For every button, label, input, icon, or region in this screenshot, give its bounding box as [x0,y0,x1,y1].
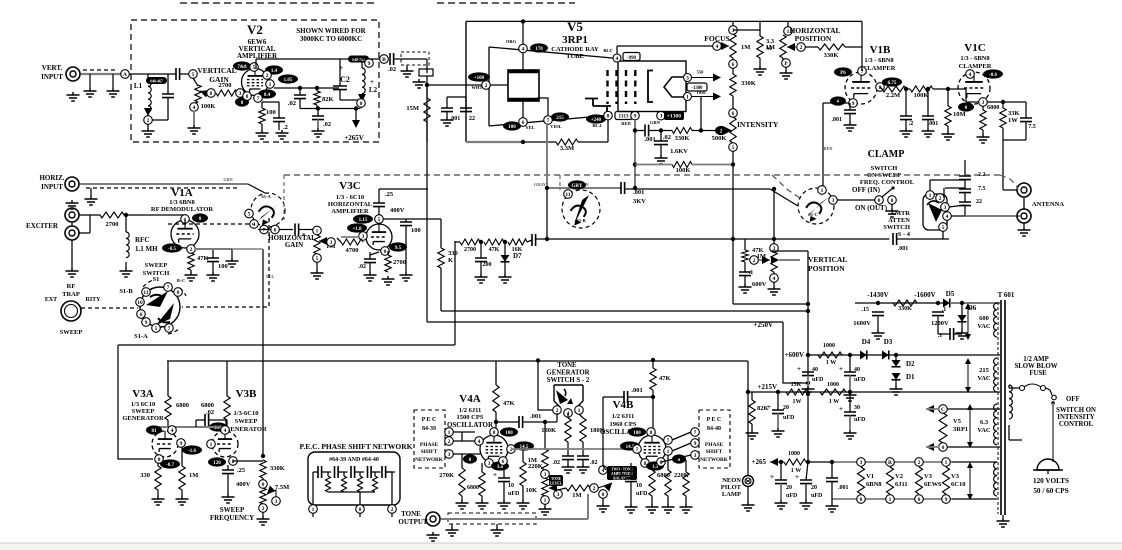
wire 10ufd b top [630,463,632,478]
sweep freq wiper [267,486,275,494]
svg-text:+265: +265 [752,458,767,466]
switch lever [1050,390,1052,395]
svg-text:2700: 2700 [464,247,476,253]
wire D7 gnd [504,262,506,274]
capacitor 200 [475,258,487,262]
svg-text:.2: .2 [909,121,914,127]
ground .2 V1B [900,128,913,137]
node 10 S1B [136,298,145,307]
svg-text:FREQ. CONTROL: FREQ. CONTROL [860,179,915,186]
ground 6800 V4B [646,504,659,513]
capacitor .25 400V V3B [222,470,234,474]
svg-text:270K: 270K [439,472,454,479]
ground L1 [142,128,155,137]
vert pos wiper [758,259,770,261]
svg-text:81: 81 [152,429,158,434]
wire .02 top [660,131,662,142]
node 3 S4 [941,203,950,212]
node 3 S1C [829,196,838,205]
node 3 V2 grid [236,89,245,98]
svg-text:1M: 1M [766,44,775,51]
wire box top y361 [167,360,748,362]
heater V3 6C10 [942,458,951,467]
ground shield b [491,527,504,536]
resistor 47K net [484,239,504,245]
resistor 47K V4A [493,385,499,412]
wire 22 top [465,97,467,108]
svg-text:6: 6 [732,111,735,117]
connector exciter 2 [65,226,79,240]
svg-text:3: 3 [448,452,451,458]
wire 3.3M top [759,21,761,36]
wire pec to v4a 3 [453,453,480,455]
node 3 V1C cathode [979,98,988,107]
wire +250V corner down [783,322,808,383]
wire 2.2 top [964,168,966,176]
svg-text:33K: 33K [1008,110,1020,117]
svg-text:1/3 6C10: 1/3 6C10 [131,401,155,408]
svg-text:+1.8: +1.8 [352,227,362,232]
node pec4 [691,428,700,437]
svg-text:1: 1 [578,408,581,414]
termination resistor small [419,69,433,76]
ground .02 output [312,128,325,137]
svg-text:10: 10 [508,483,514,489]
node 4 focus wiper [713,42,722,51]
svg-text:1/2 6J11: 1/2 6J11 [612,413,635,420]
svg-text:SHOWN WIRED FOR: SHOWN WIRED FOR [296,27,366,35]
svg-text:1: 1 [929,193,932,199]
oval -1.6 [182,445,202,454]
wire 330K top [440,219,442,248]
svg-text:INPUT: INPUT [41,73,63,81]
wire gray cathode drop x635 [634,120,636,188]
wire tone output [441,518,588,520]
capacitor 10uFD V4A [498,478,510,482]
wire down to antenna [1002,140,1004,190]
tube V3C triode [366,224,392,250]
svg-text:4: 4 [616,56,619,62]
svg-text:+265V: +265V [344,134,364,142]
svg-text:8: 8 [246,94,249,100]
svg-text:+: + [797,365,801,373]
wire grid drive x701 [700,97,702,131]
node 1 S4 [926,191,935,200]
wire .001h top [831,462,833,478]
svg-text:V3B: V3B [236,388,257,400]
svg-text:SLOW BLOW: SLOW BLOW [1014,363,1057,370]
node 8 V4B plate [647,428,656,437]
wire plate to .001 [496,421,519,423]
svg-text:1313: 1313 [619,115,630,120]
capacitor .02 cross coupling [205,414,209,426]
resistor 1M V3A [179,466,185,490]
arrow 63vac b [969,464,971,498]
svg-text:V3A: V3A [132,388,153,400]
capacitor .001 V4A [519,416,523,428]
node 1 V2 [266,80,275,89]
arrow +265V [355,109,357,123]
wire cap chain 1 [964,180,966,189]
svg-text:10: 10 [636,483,642,489]
wire 6800b bottom [226,420,228,426]
connector antenna 1 [1017,183,1031,197]
capacitor .001 3KV [621,182,625,194]
svg-text:XMTR: XMTR [890,210,910,217]
wire cap chain 2 [964,193,966,202]
svg-text:P E C: P E C [422,417,437,423]
ground tone output [427,532,440,541]
node 2 V1A cathode [187,245,196,254]
transformer secondary winding 600VAC [994,303,997,337]
svg-text:2700: 2700 [219,82,232,89]
node 1 V4B [664,447,673,456]
wire 3.3M bottom [759,58,761,66]
resistor 3.3M horizontal [556,139,578,145]
wire 100 top [405,219,407,222]
capacitor 20uFD c [800,480,812,484]
wire S4 node3 to 22 [949,205,965,207]
svg-text:OSCILLATOR: OSCILLATOR [447,421,494,429]
svg-text:GRY: GRY [572,184,583,189]
wire pec join [461,432,463,441]
transformer T601 core [1001,300,1005,515]
wire 1000c right [806,461,832,463]
node 3 V3C grid [359,232,368,241]
svg-text:EXCITER: EXCITER [26,222,59,230]
svg-text:11: 11 [565,192,570,198]
svg-text:.001: .001 [838,485,849,491]
svg-text:5: 5 [732,145,735,151]
ground cathode stub [226,258,239,267]
node 7b V4B [664,436,673,445]
resistor 330K cathode [672,128,692,134]
svg-text:9: 9 [145,320,148,326]
capacitor 20uFD a [772,410,784,414]
tone switch body [554,385,583,407]
node 1 V3B grid [207,440,216,449]
ground clamp switch [886,208,899,217]
svg-text:.02: .02 [288,100,296,107]
node 6 V4A [499,457,508,466]
oval -0.7 [160,459,180,468]
svg-text:4700: 4700 [346,247,359,254]
svg-text:1960 CPS: 1960 CPS [610,421,637,428]
svg-text:6800: 6800 [467,485,479,491]
wire v4b to pec 3 [661,455,691,462]
node 9 V3A grid [177,439,186,448]
wire L2 to rail [360,107,362,109]
ground .1 600V [739,284,752,293]
wire L1 bottom join [148,119,168,121]
arrow heater bottom [926,443,934,451]
switch wedge S-4 [928,203,942,222]
dashed stub to S1B [559,175,561,190]
svg-text:1M: 1M [572,492,581,499]
heater row top wire [832,461,952,463]
capacitor 22 [460,108,472,112]
wire .001 out [523,421,557,423]
transformer primary winding [1009,385,1012,419]
oval node 2 intensity wiper [715,126,727,135]
capacitor .001 V1B [844,110,856,114]
potentiometer 100K VERTICAL GAIN [195,85,201,102]
node P horiz pot bottom [782,59,791,68]
svg-text:7.5: 7.5 [1028,124,1036,130]
svg-text:J: J [660,114,663,120]
svg-text:ON (OUT): ON (OUT) [855,204,888,212]
wire pec to v4a 2 [453,440,475,442]
capacitor 7.5 antenna [959,189,971,193]
wire 100K left gray [635,164,672,166]
node 4 tone switch [564,409,573,418]
ground vert pos [768,286,781,295]
wire .2 bottom [278,122,280,130]
node 8 V4A plate [490,428,499,437]
wire intensity pot down [732,151,734,304]
svg-text:1/3 - 6BN8: 1/3 - 6BN8 [960,55,990,62]
wire switch node 2 down [556,413,558,422]
svg-text:3: 3 [275,499,278,505]
svg-text:ANTENNA: ANTENNA [1032,201,1064,208]
switch lever OFF [882,188,893,197]
wire gray to .001 3KV [547,187,621,189]
capacitor .2 [900,116,912,120]
svg-text:47K: 47K [503,400,515,407]
svg-text:7: 7 [257,96,260,102]
svg-text:5: 5 [316,256,319,262]
ground .15 [872,330,885,339]
node 3 horiz gain wiper [327,238,336,247]
ground .2 [276,130,289,139]
network 2700 47K 16K [455,241,460,243]
svg-text:uFD: uFD [811,493,823,499]
wire pec to v4a 1 [453,431,475,433]
svg-text:9: 9 [180,441,183,447]
capacitor .02 1.6KV [654,141,668,145]
wire right vertical to V1B [861,21,863,65]
wire node A into box [129,73,148,75]
ground 1M V3A [176,496,189,505]
wire cathode to .2 [262,101,279,103]
ground 220K V4B [662,504,675,513]
wire .001b top [927,89,929,116]
svg-text:47K: 47K [197,255,209,262]
node 7 V4B [633,445,642,454]
node 5 V3C plate [375,215,384,224]
wire tone level gnd [544,504,546,506]
tube V4A pentode [480,435,508,463]
resistor 15K vertical [424,98,430,122]
wire pot bottom gnd [773,282,775,286]
oval 100 V4B [628,427,646,436]
svg-text:3KV: 3KV [633,198,646,205]
wire pot to gnd [193,111,195,125]
wire cap out long to xmtr [536,238,890,240]
svg-text:RF: RF [67,283,76,290]
svg-text:GENERATOR: GENERATOR [122,415,164,422]
wire V1C cathode right [987,101,1026,103]
wire focus node to 3.3M [733,29,760,31]
node 9 L2 top [365,59,374,68]
wire .2 gnd [905,120,907,128]
oval 0 V4A [463,454,477,463]
capacitor .001 V4B [624,391,628,403]
wire node2 feed [427,84,482,86]
svg-text:AMPLIFIER: AMPLIFIER [331,208,369,215]
ground RFC [120,268,133,277]
svg-text:1/3-6C10: 1/3-6C10 [234,410,259,417]
svg-text:10: 10 [137,300,143,306]
svg-text:6: 6 [660,460,663,466]
svg-text:VAC: VAC [977,323,991,330]
wire box left x118 down to V3A [118,345,153,459]
svg-text:.02: .02 [323,121,331,128]
resistor 6800 V3B plate [224,396,230,420]
pin oval 7-8 [233,61,251,70]
svg-text:FUSE: FUSE [1029,370,1047,377]
svg-text:5: 5 [248,212,251,218]
svg-text:P E C: P E C [707,417,722,423]
svg-text:220K: 220K [528,463,543,470]
svg-text:500K: 500K [712,135,727,142]
svg-text:600: 600 [979,315,989,322]
oval 14.5 V4B [620,441,640,450]
wire plate out [406,218,441,220]
svg-text:uFD: uFD [636,491,648,497]
svg-text:-1600V: -1600V [914,291,935,299]
svg-text:2: 2 [753,258,756,264]
svg-text:+: + [839,405,843,413]
pin oval 0 V1C [958,102,974,111]
svg-text:-990: -990 [627,56,636,61]
oval 120 V3B [208,457,226,466]
svg-text:+215V: +215V [757,383,777,391]
wire 40a gnd [807,376,809,386]
tone level wiper [554,490,563,499]
svg-text:100: 100 [508,125,516,130]
wire to gnd [831,499,833,503]
svg-text:GAIN: GAIN [285,241,303,249]
wire V2 cathode [261,102,263,108]
wire 82K gnd [751,424,753,430]
resistor 330 V3A [155,466,161,490]
svg-text:.1: .1 [749,270,754,276]
dashed wire V1A to S1A [168,223,253,225]
svg-text:1: 1 [667,449,670,455]
dashed wire S1A to S1B [182,218,269,307]
node 6 S1A [271,225,280,234]
resistor 47K V1A [188,253,194,270]
wire V1C grid in [965,89,967,102]
wire .001b gnd [927,120,929,128]
svg-text:7&8: 7&8 [237,65,247,70]
wire 10ufd gnd [503,482,505,500]
resistor 1000 1W b [820,389,846,395]
ground shield a [446,527,459,536]
wire 6800a bottom [167,420,169,427]
wire switch to lamp [1052,403,1054,462]
node 5 V2 plate pin [250,63,259,72]
XMTR ATTEN switch body [923,194,947,230]
potentiometer 1M FOCUS [730,34,736,58]
ground vertical gain [188,125,201,134]
svg-text:1000: 1000 [823,343,835,349]
svg-text:4: 4 [478,439,481,445]
wire D1 gnd [895,380,897,386]
svg-text:OFF (IN): OFF (IN) [852,186,881,194]
rotary switch S1-C [798,188,834,224]
svg-text:CLAMP: CLAMP [868,149,905,160]
wire 220K top [522,449,524,462]
svg-text:6: 6 [732,62,735,68]
wire 100K right gray [692,164,733,166]
wire node4 [951,215,965,217]
wire S1A to cap [279,229,293,231]
resistor 330K focus chain [730,74,736,96]
svg-text:VERTICAL: VERTICAL [808,255,847,264]
wire 2700 to V1A [124,214,185,216]
wire box bottom vert pos [733,303,808,305]
ground 6800 [977,134,990,143]
ground far right [680,504,693,513]
ground horiz input [66,200,79,209]
wire .1 gnd [744,276,746,284]
node 0 V3C cathode [381,247,390,256]
svg-text:SWEEP: SWEEP [145,262,168,269]
resistor 2700 net [460,239,480,245]
wire 20c top [806,462,808,480]
node 4 V4A [475,437,484,446]
resistor 330K V3B [260,460,266,478]
wire grid to 2.2M [880,87,882,89]
svg-text:100K: 100K [201,103,216,110]
svg-text:3RP1: 3RP1 [562,34,588,46]
node 2 tone switch [553,406,562,415]
node 2 CRT left [468,72,490,81]
gun enclosure box [618,61,686,112]
grid element step [585,99,611,112]
svg-text:1W: 1W [1008,117,1018,124]
svg-text:LAMP: LAMP [722,491,741,498]
svg-text:9: 9 [634,114,637,120]
resistor 6800 V1C [980,110,986,130]
svg-text:L1: L1 [134,82,143,90]
wire .02b top [317,109,319,117]
ground 1.6KV [655,155,668,164]
svg-text:9: 9 [852,101,855,107]
svg-text:0: 0 [860,497,863,503]
resistor 82K [314,91,320,105]
wire 82K down [316,105,318,109]
wire pec bottom [328,491,375,493]
svg-text:D1: D1 [906,373,915,381]
ground 10ufd b [625,504,638,513]
svg-text:0: 0 [602,492,605,498]
wire shield horiz gnd [90,188,92,196]
CRT bottom pin row [503,121,521,130]
svg-text:1 W: 1 W [826,360,836,366]
node 5 horiz gain bottom [313,254,322,263]
wire D6 top [961,303,963,315]
ground 100 V1A [207,272,220,281]
svg-text:20: 20 [811,485,817,491]
wire antenna gnd [1023,223,1025,227]
svg-text:.25: .25 [385,191,394,198]
svg-text:3: 3 [982,100,985,106]
wire feedback x603 down [603,397,606,470]
svg-text:2: 2 [190,247,193,253]
